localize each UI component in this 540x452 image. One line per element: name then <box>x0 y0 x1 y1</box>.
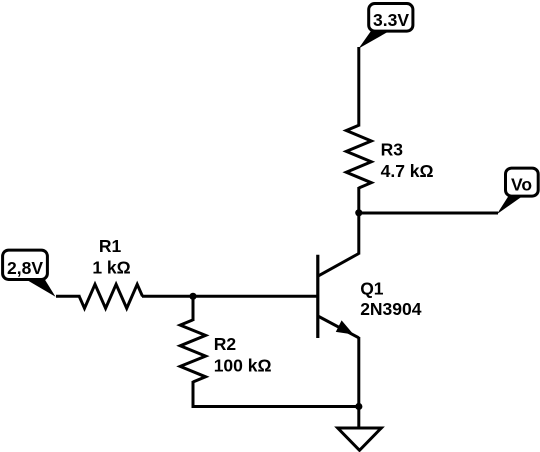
wire R2 top lead <box>192 296 195 321</box>
wire emitter down <box>357 337 360 407</box>
node ground junction <box>355 403 362 410</box>
net label Vo tail <box>497 196 523 214</box>
resistor R3 <box>346 125 371 188</box>
wire base <box>193 295 318 298</box>
wire 3.3V to R3 <box>357 47 360 127</box>
net label Vo <box>506 168 539 196</box>
svg-text:1 kΩ: 1 kΩ <box>92 257 130 277</box>
resistor R1 <box>79 284 142 308</box>
node Vo junction <box>355 209 362 216</box>
svg-text:R2: R2 <box>214 334 237 354</box>
net label 2,8V tail <box>25 279 55 297</box>
label Q1 2N3904 <box>360 279 422 319</box>
net label 3.3V <box>369 4 413 32</box>
svg-text:2,8V: 2,8V <box>7 258 43 278</box>
transistor Q1 <box>318 254 359 339</box>
svg-text:R1: R1 <box>99 236 122 256</box>
label R1 value 1 kOhm <box>92 236 130 277</box>
net label 3.3V tail <box>359 32 389 49</box>
node base junction <box>189 293 196 300</box>
svg-text:2N3904: 2N3904 <box>360 299 422 319</box>
resistor R2 <box>180 320 205 382</box>
wire R3 to collector <box>357 187 360 255</box>
svg-text:Vo: Vo <box>511 175 532 195</box>
wire R1 to node <box>142 295 193 298</box>
svg-text:100 kΩ: 100 kΩ <box>214 355 272 375</box>
ground <box>338 428 382 450</box>
label R3 value 4.7 kOhm <box>381 140 434 182</box>
wire 2,8V to R1 <box>56 295 81 298</box>
svg-text:Q1: Q1 <box>360 279 384 299</box>
net label 2,8V <box>3 250 48 279</box>
label R2 value 100 kOhm <box>214 334 272 375</box>
wire bottom <box>193 405 359 408</box>
svg-text:3.3V: 3.3V <box>373 10 409 30</box>
wire R2 bottom lead <box>192 381 195 408</box>
svg-text:R3: R3 <box>381 140 404 160</box>
wire to ground <box>357 407 360 429</box>
wire node to Vo <box>359 212 498 215</box>
svg-text:4.7 kΩ: 4.7 kΩ <box>381 161 434 181</box>
